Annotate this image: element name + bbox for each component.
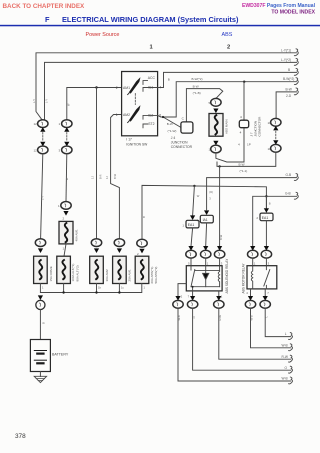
svg-text:G-B: G-B [285, 191, 291, 195]
ABS fuse box [209, 114, 223, 137]
top pin connectors [186, 250, 196, 258]
battery box [30, 340, 50, 372]
svg-text:B-W: B-W [219, 234, 223, 240]
svg-text:ABS MOTOR RELAY: ABS MOTOR RELAY [241, 262, 245, 293]
svg-text:R-W: R-W [282, 355, 288, 359]
svg-text:G-B: G-B [286, 173, 292, 177]
svg-text:EWD307F Pages From Manual: EWD307F Pages From Manual [242, 3, 316, 9]
svg-text:B: B [42, 322, 46, 324]
svg-text:12: 12 [34, 149, 38, 153]
svg-text:1: 1 [254, 262, 256, 266]
svg-text:W-B: W-B [282, 377, 288, 381]
junction dot B-W to solenoid relay coil [218, 165, 220, 167]
mechanical link dashed [134, 94, 136, 105]
wire IG2 branch to J4 pin C [163, 117, 181, 127]
svg-text:F: F [45, 15, 50, 24]
wire dot to EA1 [193, 186, 195, 216]
svg-text:4: 4 [246, 291, 248, 295]
svg-text:(*1-B): (*1-B) [193, 91, 201, 95]
svg-text:100A ALT(*1): 100A ALT(*1) [71, 264, 75, 282]
svg-text:W: W [197, 194, 200, 198]
svg-text:1J: 1J [105, 176, 109, 179]
svg-text:B-W: B-W [286, 87, 292, 91]
svg-text:4: 4 [238, 143, 240, 147]
svg-text:J 4: J 4 [171, 136, 176, 140]
motor relay box [247, 266, 277, 289]
svg-text:L: L [285, 332, 287, 336]
relay internal coil [218, 266, 219, 287]
svg-text:3: 3 [221, 262, 223, 266]
svg-text:Power Source: Power Source [86, 32, 120, 38]
bottom pin connectors [245, 300, 255, 308]
bus 1 wire L-Y (from DOME fuse column to right edge) [36, 53, 297, 120]
arrow into IA1 [204, 210, 209, 215]
svg-text:60A ABS(*1): 60A ABS(*1) [150, 267, 154, 284]
connector pair II2 arrows and dashed link [64, 127, 69, 132]
arrows and dashed link [273, 126, 278, 131]
connector pair IF1 arrows and dashed link [40, 127, 45, 132]
connector pair II2 upper oval [62, 120, 72, 128]
ignition switch box [122, 72, 158, 136]
J4 box [181, 122, 193, 133]
svg-text:CONNECTOR: CONNECTOR [258, 116, 262, 137]
svg-text:(*1-1): (*1-1) [240, 169, 248, 173]
svg-text:B: B [168, 78, 170, 82]
svg-text:W-B: W-B [250, 315, 254, 320]
solenoid relay box [186, 266, 222, 291]
svg-text:BACK TO CHAPTER INDEX: BACK TO CHAPTER INDEX [3, 3, 86, 10]
fuse4 bottom drop [118, 284, 120, 293]
svg-text:3: 3 [59, 149, 61, 153]
fuse 60A ABS box [135, 256, 149, 283]
curl bus1 [294, 49, 298, 56]
svg-text:4: 4 [240, 115, 242, 119]
bottom pins [192, 291, 194, 296]
connector above AM1 fuse [61, 202, 71, 210]
wire EA1 right to motor relay pin [265, 221, 267, 247]
bus 3 wire B from IG1 [158, 72, 297, 87]
svg-text:B: B [142, 216, 146, 218]
wire G-B right exit upper [207, 178, 297, 210]
connector above 30A AM2 fuse [91, 239, 101, 247]
connector pair IF1 lower oval [38, 146, 48, 154]
arrow below ABS fuse [213, 141, 218, 146]
wire W-B exit from solenoid relay pin 2 [178, 308, 291, 381]
svg-text:IGNITION SW: IGNITION SW [126, 142, 148, 146]
battery cell plates [34, 350, 46, 352]
wire EA1 to solenoid relay pin [191, 228, 193, 246]
svg-text:TO MODEL INDEX: TO MODEL INDEX [271, 10, 315, 16]
wire L exit from motor relay pin 7 [265, 308, 291, 336]
svg-text:W-B: W-B [177, 315, 181, 320]
wire B net from 60A ABS fuse across [142, 185, 266, 239]
wire 30A AM2 fuse column [96, 88, 98, 239]
svg-text:1: 1 [144, 286, 146, 290]
svg-text:O: O [285, 366, 288, 370]
svg-text:80A ALT(*2): 80A ALT(*2) [76, 265, 80, 281]
battery positive connector circle [36, 300, 45, 309]
junction dot G-B lower crossing [265, 195, 267, 197]
svg-text:B-R: B-R [99, 174, 103, 179]
fuse2 bottom drop [63, 284, 65, 293]
svg-text:I 17: I 17 [126, 138, 132, 142]
wire battery connector to battery [39, 310, 41, 340]
bottom bus wire fuse bottoms to battery [40, 284, 141, 293]
relay internal switch [191, 266, 195, 287]
svg-text:ABS SOLENOID RELAY: ABS SOLENOID RELAY [225, 258, 229, 294]
junction dot bus4 / J7 riser [243, 81, 245, 83]
svg-text:B-W: B-W [167, 122, 173, 126]
svg-text:B-W: B-W [113, 173, 117, 179]
svg-text:L-Y: L-Y [32, 99, 36, 103]
svg-text:2: 2 [116, 86, 118, 90]
junction code IA1 [200, 215, 213, 223]
svg-text:1b: 1b [98, 286, 101, 290]
svg-text:2: 2 [137, 252, 139, 256]
curl bus3 [294, 68, 298, 75]
curl bus2 [294, 58, 298, 65]
AM1 switch lever [129, 78, 140, 94]
svg-text:IA1: IA1 [203, 218, 208, 222]
wire IA1 to solenoid relay pin [205, 223, 208, 246]
connector pair II2 lower oval [62, 146, 72, 154]
svg-text:7: 7 [188, 294, 190, 298]
connector 10 oval [271, 118, 281, 126]
curl bus5 [294, 88, 298, 95]
svg-text:L-Y(*1): L-Y(*1) [281, 48, 291, 52]
svg-text:C: C [182, 117, 185, 121]
junction code EA1 right [260, 213, 273, 221]
svg-text:B: B [288, 68, 290, 72]
svg-text:B-W(*2): B-W(*2) [283, 77, 294, 81]
svg-text:2: 2 [181, 294, 183, 298]
svg-text:1: 1 [58, 204, 60, 208]
svg-text:10: 10 [268, 121, 272, 125]
fuse AM1 40A box [59, 221, 73, 244]
svg-text:7: 7 [267, 291, 269, 295]
svg-text:CONNECTOR: CONNECTOR [171, 145, 193, 149]
connector above DOME fuse [35, 239, 45, 247]
svg-text:1: 1 [42, 286, 44, 290]
svg-text:1: 1 [63, 247, 65, 251]
svg-text:25A AM1: 25A AM1 [128, 269, 132, 282]
svg-text:1c: 1c [121, 286, 124, 290]
motor relay switch [264, 266, 270, 289]
svg-text:1: 1 [59, 122, 61, 126]
junction dots on bottom bus [62, 291, 64, 293]
wire battery to ground [39, 372, 41, 377]
connector pair IF1 upper oval [38, 120, 48, 128]
svg-text:1: 1 [207, 262, 209, 266]
svg-text:ABS: ABS [222, 32, 233, 38]
svg-text:15A DOME: 15A DOME [49, 266, 53, 281]
svg-text:B-W(*2): B-W(*2) [192, 77, 203, 81]
svg-text:1P: 1P [247, 143, 251, 147]
svg-text:1J: 1J [91, 176, 95, 179]
fuse3 bottom drop [96, 284, 98, 293]
AM2 switch lever [129, 106, 140, 122]
svg-text:4: 4 [159, 86, 161, 90]
svg-text:50A ABS(*2): 50A ABS(*2) [154, 267, 158, 284]
svg-text:ACC: ACC [148, 76, 156, 80]
connector above 25A AM1 fuse [114, 239, 124, 247]
junction dot B net / EA1 drop [193, 185, 195, 187]
wire AM2 from ignition switch to 25A fuse [111, 115, 122, 239]
svg-text:B-W: B-W [239, 162, 245, 166]
relay internal top rail [195, 270, 220, 272]
J7 box [239, 120, 248, 128]
wire B drop to EA1 right [265, 196, 267, 208]
svg-text:2: 2 [63, 217, 65, 221]
svg-text:1: 1 [150, 45, 154, 51]
svg-text:11: 11 [268, 147, 271, 151]
left side pin 2 [178, 284, 186, 296]
wire ABS fuse bottom to J7 [216, 128, 244, 162]
svg-text:5: 5 [188, 262, 190, 266]
svg-text:JUNCTION: JUNCTION [171, 141, 188, 145]
bus 5 wire B-W to connector 10 column [276, 92, 296, 118]
svg-text:L-Y(*2): L-Y(*2) [281, 58, 291, 62]
svg-text:L-Y: L-Y [41, 196, 45, 200]
svg-text:AM1: AM1 [123, 86, 130, 90]
connector above ABS fuse [211, 98, 221, 106]
wire B-W from connector 11 to ABS fuse net [217, 152, 276, 166]
wire G-B right exit lower [253, 196, 297, 246]
arrow into battery connector [38, 295, 43, 300]
bus 4 wire B-W from IG2 riser [158, 82, 297, 117]
svg-text:2: 2 [227, 45, 230, 51]
svg-text:W-B: W-B [282, 343, 288, 347]
svg-text:3: 3 [209, 197, 211, 201]
bottom pins [250, 289, 252, 296]
svg-text:(*1-W): (*1-W) [168, 129, 177, 133]
fuse 15A DOME box [34, 256, 48, 283]
svg-text:(D): (D) [209, 190, 213, 194]
wire AM1 fuse to ALT fuse [64, 244, 66, 256]
connector above 60A ABS fuse [137, 239, 147, 247]
fuse 100A ALT box [57, 256, 71, 283]
top pin connectors [248, 250, 258, 258]
bottom pin connectors [173, 300, 183, 308]
svg-text:EA1: EA1 [262, 216, 269, 220]
svg-text:6: 6 [159, 113, 161, 117]
svg-text:ST2: ST2 [148, 122, 154, 126]
svg-text:O: O [192, 316, 196, 318]
svg-text:3: 3 [268, 262, 270, 266]
svg-text:12: 12 [34, 122, 38, 126]
wire R-W exit [219, 308, 291, 359]
curl bus4 [294, 78, 298, 85]
svg-text:2-D: 2-D [286, 94, 292, 98]
wire B-W dot to solenoid relay coil pin [219, 166, 221, 246]
svg-text:R-W: R-W [218, 315, 222, 321]
svg-text:L-Y: L-Y [45, 99, 49, 103]
wire col2 to AM1 fuse [65, 154, 68, 202]
svg-text:BATTERY: BATTERY [52, 353, 69, 357]
title rule [0, 25, 320, 27]
svg-text:30A AM2: 30A AM2 [105, 269, 109, 282]
connector 11 oval [271, 144, 281, 152]
wire B-W from J4 top pin to ABS fuse connector [186, 89, 222, 122]
svg-text:2: 2 [256, 216, 258, 220]
svg-text:B-W: B-W [193, 84, 199, 88]
svg-text:40A AM1: 40A AM1 [75, 229, 79, 242]
wire W-B exit from motor relay pin 4 [251, 308, 291, 348]
junction dot AM1 wire to 30A fuse column [95, 86, 97, 88]
pins into relay box [190, 258, 192, 266]
junction code EA1 left [186, 220, 199, 228]
svg-text:4: 4 [240, 130, 242, 134]
svg-text:378: 378 [15, 433, 26, 440]
svg-text:AM2: AM2 [123, 113, 130, 117]
fuse 30A AM2 box [90, 256, 104, 283]
pins into box [252, 258, 254, 266]
fuse 25A AM1 box [113, 256, 127, 283]
svg-text:ELECTRICAL WIRING DIAGRAM (Sys: ELECTRICAL WIRING DIAGRAM (System Circui… [62, 15, 239, 24]
svg-text:1: 1 [116, 113, 118, 117]
relay internal bottom rail [191, 287, 220, 291]
wire O exit [193, 308, 291, 370]
ground symbol [34, 376, 46, 382]
svg-text:EA1: EA1 [188, 223, 195, 227]
svg-text:1: 1 [182, 223, 184, 227]
wire AM1 horizontal from ignition switch [67, 88, 122, 120]
motor relay coil [251, 266, 252, 289]
svg-text:ABS MAIN: ABS MAIN [224, 119, 228, 134]
bus 2 wire L-Y (second) [45, 62, 297, 119]
J7 riser from bus4 [243, 82, 245, 121]
wire col1 to DOME fuse [41, 154, 43, 239]
relay internal diode [203, 266, 209, 287]
connector below ABS fuse [211, 145, 221, 153]
svg-text:B: B [269, 202, 271, 206]
